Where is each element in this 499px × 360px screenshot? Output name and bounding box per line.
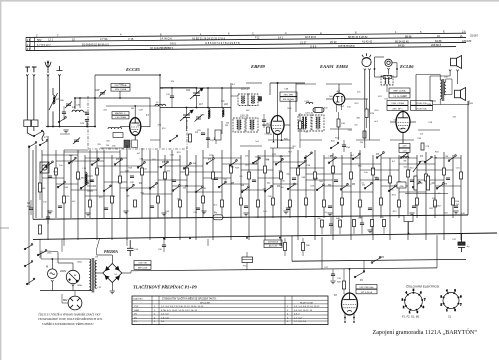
wire [150, 139, 160, 141]
box ZES MF2 [280, 97, 297, 101]
junction [196, 107, 198, 109]
wire [277, 83, 279, 105]
ground G6 [243, 213, 248, 216]
wire [361, 225, 363, 234]
wire [369, 70, 371, 112]
wire [35, 145, 37, 218]
resistor R78 [421, 143, 424, 150]
wire [451, 79, 453, 95]
svg-text:L29 L30: L29 L30 [305, 113, 314, 115]
wire [85, 195, 112, 197]
resistor R21 [264, 166, 267, 173]
wire [359, 150, 361, 218]
IF transformer MF4 [381, 76, 393, 85]
wire [263, 114, 265, 120]
wire [277, 135, 279, 149]
junction [163, 238, 165, 240]
wire [207, 88, 209, 108]
box TESLA 2 [389, 93, 410, 98]
wire stub [100, 147, 124, 149]
wire [230, 83, 232, 148]
wire [306, 173, 342, 175]
junction [344, 317, 346, 319]
svg-text:L4B+: L4B+ [47, 253, 53, 255]
wire [272, 148, 274, 218]
wire [443, 152, 445, 240]
wire [163, 247, 165, 252]
resistor R56 [284, 243, 287, 251]
wire [343, 140, 345, 145]
wire [74, 291, 76, 297]
capacitor C71 [329, 224, 333, 226]
ground G5 [201, 211, 206, 214]
wire [388, 70, 390, 75]
box TESLA 3 [387, 101, 408, 106]
junction [47, 126, 49, 128]
wire [297, 150, 299, 240]
capacitor C46 [244, 206, 248, 208]
wire [63, 239, 65, 246]
wire [104, 181, 127, 183]
wire [74, 98, 76, 109]
wire vkv bus [75, 97, 150, 99]
wire [269, 83, 271, 95]
wire [398, 155, 400, 218]
wire [122, 272, 131, 274]
svg-text:92 8 90 8: 92 8 90 8 [305, 35, 316, 39]
junction [279, 237, 281, 239]
svg-text:2 9: 2 9 [27, 43, 31, 47]
resistor R41 [240, 198, 243, 205]
svg-text:1M: 1M [131, 108, 134, 110]
svg-text:MF 452kHz: MF 452kHz [283, 99, 294, 101]
capacitor C3 [46, 217, 50, 219]
wire [452, 155, 454, 218]
switch contact S6 [160, 161, 168, 168]
wire [77, 150, 79, 240]
svg-text:25/187: 25/187 [470, 34, 478, 38]
box 470k [397, 182, 406, 188]
switch contact S20 [218, 181, 226, 188]
resistor R40 [221, 200, 224, 207]
wire [97, 239, 100, 250]
svg-text:DV: DV [134, 314, 138, 316]
wire [87, 175, 93, 177]
wire [30, 200, 32, 208]
svg-text:C1: C1 [448, 315, 452, 319]
svg-text:A: A [320, 31, 322, 35]
wire [430, 100, 436, 102]
wire [446, 94, 452, 96]
switch contact S13 [57, 181, 65, 188]
box 63V [264, 244, 282, 248]
svg-text:F12: F12 [255, 36, 260, 40]
resistor R11 [267, 127, 270, 133]
box OSC VKV [111, 84, 130, 88]
resistor R18 [212, 172, 215, 179]
wire [111, 255, 113, 264]
wire [215, 134, 217, 138]
svg-text:STISKNUTÍM TLAČÍTKA MĚNÍ SE: STISKNUTÍM TLAČÍTKA MĚNÍ SE SPOJENÍ TAKT… [162, 298, 217, 301]
svg-text:1,2V: 1,2V [402, 150, 407, 152]
wire [360, 179, 390, 181]
tube V5 ECL86 [396, 112, 410, 133]
svg-text:2 6: 2 6 [462, 29, 466, 33]
resistor R27 [372, 168, 375, 175]
wire [46, 250, 58, 253]
wire [149, 150, 151, 240]
coil L18 [222, 108, 224, 117]
wire [203, 157, 241, 159]
wire [299, 113, 301, 121]
wire [258, 177, 281, 179]
wire [321, 227, 323, 234]
bus lower B [131, 268, 437, 271]
wire [130, 271, 132, 273]
wire [435, 157, 461, 159]
svg-text:L25 L27: L25 L27 [241, 89, 250, 91]
switch P9b [58, 117, 66, 123]
wire [396, 63, 398, 77]
junction [189, 238, 191, 240]
capacitor C72 [360, 223, 364, 225]
resistor R14 [119, 176, 122, 183]
junction [246, 237, 248, 239]
svg-text:2-3, 5-0: 2-3, 5-0 [161, 314, 169, 316]
junction [353, 317, 355, 319]
svg-text:VYP: VYP [134, 306, 139, 308]
wire [280, 239, 282, 246]
pin arrow V2a [273, 133, 275, 140]
wire [258, 155, 290, 157]
wire [369, 112, 371, 140]
wire [207, 128, 209, 148]
wire [28, 145, 30, 241]
wire [32, 150, 34, 219]
wire [341, 155, 343, 218]
capacitor C40 [410, 180, 414, 182]
switch contact S3 [91, 159, 99, 166]
wire [97, 254, 113, 256]
wire [380, 155, 382, 218]
svg-text:4-6, 2: 4-6, 2 [294, 314, 300, 316]
capacitor C32 [90, 180, 94, 182]
wire [277, 105, 279, 116]
box ODP1 [134, 261, 151, 265]
wire [306, 179, 333, 181]
wire [338, 84, 340, 88]
svg-text:GRA: GRA [134, 309, 139, 312]
wire [338, 127, 340, 141]
switch contact S25 [328, 157, 336, 164]
wire [336, 105, 338, 113]
tube V4 EM84 [362, 53, 371, 66]
wire [84, 155, 86, 218]
resistor R41 [342, 281, 345, 289]
lamp series resistor [384, 75, 392, 78]
switch contact S16 [126, 184, 134, 191]
resistor R49 [380, 198, 383, 205]
wire [195, 155, 197, 240]
pot wiper 2 [432, 182, 435, 184]
junction [74, 97, 76, 99]
wire [248, 150, 250, 240]
wire [323, 155, 325, 218]
wire [338, 112, 340, 119]
wire [111, 283, 113, 291]
wire [314, 150, 316, 240]
box dark L13 [124, 140, 130, 148]
ground GZ [330, 281, 335, 284]
svg-text:21 37: 21 37 [300, 40, 307, 44]
table column line [151, 296, 153, 325]
wire [425, 152, 427, 240]
svg-text:4,7V: 4,7V [402, 146, 407, 148]
resistor R25 [332, 166, 335, 173]
ground G9 [367, 230, 372, 233]
wire [295, 83, 297, 112]
wire [446, 78, 452, 80]
wire [383, 227, 385, 234]
switch contact S10 [252, 157, 260, 164]
wire [375, 76, 384, 78]
wire [330, 217, 332, 224]
antenna terminal 1 [25, 67, 30, 120]
junction [159, 74, 161, 76]
resistor R3 [38, 225, 41, 234]
resistor R24 [314, 172, 317, 179]
wire [468, 101, 470, 105]
wire [246, 252, 248, 257]
wire lamp frame [374, 57, 376, 77]
resistor R23 [297, 168, 300, 175]
output transformer TR2 [440, 79, 446, 101]
wire [72, 286, 74, 291]
resistor R47 [341, 198, 344, 205]
fold mark [0, 227, 9, 229]
wire [159, 112, 161, 148]
wire stub [390, 139, 414, 141]
junction [52, 126, 54, 128]
antenna A1 [45, 61, 51, 127]
svg-text:208 80 8: 208 80 8 [431, 43, 442, 47]
wire [86, 121, 88, 126]
wire [257, 155, 259, 218]
svg-text:C21: C21 [186, 90, 191, 92]
wire [460, 155, 462, 240]
wire [449, 71, 451, 76]
tube pin notch [364, 69, 371, 71]
switch contact S7 [183, 162, 191, 169]
wire [120, 187, 150, 189]
wire [196, 88, 198, 93]
wire [343, 289, 345, 294]
wire [119, 91, 121, 98]
wire [439, 99, 441, 105]
svg-text:L4Bb: L4Bb [77, 285, 83, 287]
wire [70, 155, 72, 218]
switch P9a [33, 130, 43, 137]
svg-text:ECC85: ECC85 [125, 67, 140, 72]
wire [339, 227, 341, 234]
wire [87, 180, 93, 182]
switch P8d [24, 261, 33, 267]
svg-text:L2 1: L2 1 [48, 38, 54, 42]
resistor R37 [157, 196, 160, 203]
resistor R54 [371, 220, 374, 227]
box ODP2 [134, 265, 151, 269]
pin arrow 2 [353, 320, 355, 323]
svg-text:02 4A3A5B4B8B6 5: 02 4A3A5B4B8B6 5 [150, 46, 174, 50]
resistor R42 [257, 200, 260, 207]
padder box [215, 130, 221, 140]
wire [364, 112, 366, 148]
capacitor C26 [206, 138, 210, 140]
bridge rectifier U1 [103, 264, 122, 283]
svg-text:80 54 62 45: 80 54 62 45 [395, 39, 409, 43]
junction [119, 97, 121, 99]
wire [84, 111, 88, 113]
wire [467, 101, 469, 215]
svg-text:ODP. 230V 50Hz: ODP. 230V 50Hz [359, 287, 373, 289]
switch P1a [354, 271, 365, 278]
coil L4 [72, 110, 83, 112]
wire [30, 210, 32, 215]
variable capacitor C21 [190, 88, 203, 99]
switch contact S34 [388, 185, 396, 192]
switch contact S33 [364, 182, 372, 189]
junction [349, 268, 351, 270]
wire [290, 167, 324, 169]
switch contact S9 [229, 160, 237, 167]
wire [289, 100, 291, 148]
wire [429, 76, 431, 101]
wire [26, 127, 28, 134]
svg-text:5P2: 5P2 [37, 38, 42, 42]
resistor R16 [164, 172, 167, 179]
wire [364, 70, 366, 112]
resistor R40 [337, 119, 340, 127]
switch contact S8 [206, 158, 214, 165]
svg-text:EBF89: EBF89 [250, 64, 265, 69]
wire eaa plate [326, 83, 352, 85]
capacitor C50 [342, 145, 346, 147]
ground G8 [327, 213, 332, 216]
wire [158, 179, 187, 181]
antenna terminal 2 [32, 67, 37, 120]
wire [343, 269, 345, 281]
coil L17 [208, 108, 210, 119]
resistor R13 [96, 168, 99, 175]
svg-text:1-2, 3-4, 5-6, 7-8, 9-10, 11-1: 1-2, 3-4, 5-6, 7-8, 9-10, 11-12, 13-14, … [161, 306, 204, 308]
wire [142, 159, 180, 161]
junction [396, 68, 398, 70]
svg-text:4Ω: 4Ω [470, 103, 473, 105]
pin arrow V2b [281, 133, 283, 139]
wire [407, 150, 409, 240]
wire [142, 193, 172, 195]
selector box C45 [404, 216, 413, 222]
junction [171, 87, 173, 89]
svg-text:L10 CÍVKA: L10 CÍVKA [115, 116, 126, 119]
wire [96, 150, 98, 240]
ground GA [63, 130, 68, 133]
wire [321, 237, 323, 269]
speaker notch 1 [449, 70, 459, 72]
wire [187, 191, 222, 193]
svg-text:C4P: C4P [95, 90, 100, 92]
resistor R39 [202, 196, 205, 203]
switch contact S21 [241, 186, 249, 193]
resistor R11 [55, 168, 58, 175]
wire [51, 282, 53, 291]
switch contact S12 [298, 160, 306, 167]
switch contact S14 [80, 182, 88, 189]
wire [360, 169, 399, 171]
wire [363, 260, 365, 272]
potentiometer P volume [414, 176, 417, 190]
wire [436, 235, 438, 268]
wire [430, 75, 450, 77]
bus B plus [292, 259, 466, 261]
bus mains [33, 233, 497, 239]
wire [60, 133, 70, 135]
table frame line 4 [26, 47, 456, 51]
wire [27, 133, 33, 136]
resistor R51 [321, 220, 324, 227]
table column line [29, 37, 31, 50]
wire [289, 148, 291, 218]
svg-text:F1, F2, O1, M1: F1, F2, O1, M1 [402, 315, 420, 319]
capacitor C48 [328, 206, 332, 208]
wire [416, 74, 440, 76]
svg-text:L4Ba: L4Ba [77, 262, 83, 264]
wire stub [246, 82, 262, 84]
switch contact S28 [400, 152, 408, 159]
box AMP1 [356, 285, 377, 289]
capacitor C43 [104, 208, 108, 210]
svg-text:ZES. MF1: ZES. MF1 [284, 94, 295, 96]
junction [408, 233, 410, 235]
wire [119, 150, 121, 218]
wire [302, 251, 304, 257]
wire [57, 252, 59, 263]
box ZES MF1 [280, 92, 297, 96]
switch contact S5 [137, 162, 145, 169]
capacitor C33 [262, 120, 266, 122]
resistor R12 [77, 172, 80, 179]
svg-text:2-3, 1-4, 9-8, 11-10, 13-12: 2-3, 1-4, 9-8, 11-10, 13-12 [294, 306, 320, 308]
wire [342, 163, 381, 165]
core arrow L3 [49, 93, 58, 110]
wire [51, 259, 53, 269]
selector notch [72, 284, 74, 286]
resistor R29 [407, 170, 410, 177]
junction [134, 105, 136, 107]
tube V6 EZ80 [342, 293, 358, 315]
junction [207, 107, 209, 109]
wire lamp frame [375, 56, 385, 58]
ground G11 [453, 211, 458, 214]
table row line [132, 320, 328, 322]
wire [366, 99, 368, 109]
resistor R15 [141, 168, 144, 175]
svg-text:84 80: 84 80 [398, 43, 405, 47]
svg-text:1M: 1M [112, 146, 115, 148]
wire [416, 155, 418, 218]
junction [221, 87, 223, 89]
svg-text:0257878318 8: 0257878318 8 [338, 44, 355, 48]
